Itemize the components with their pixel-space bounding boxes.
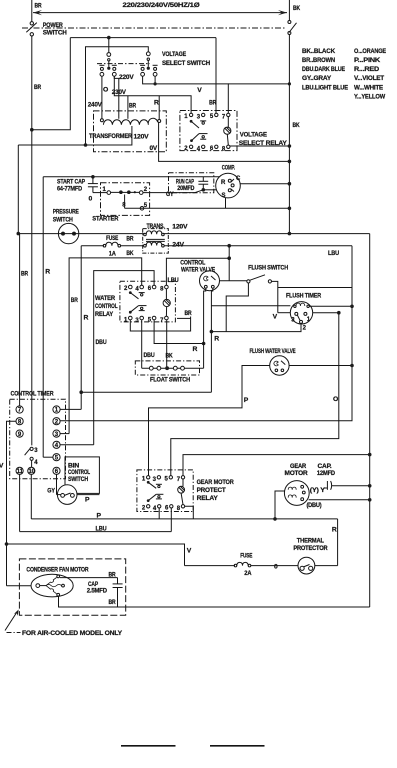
wire top supply span with arrows [33,12,287,14]
svg-text:V: V [0,463,4,470]
node junction P gear motor [273,517,277,521]
wire timer 5 from R vertical [43,456,53,458]
svg-text:RUN CAP: RUN CAP [176,180,194,186]
wire gear motor right to rail [309,499,370,501]
wire relay 7 BK to float switch [166,320,168,368]
wire BK fuse drop / R vertical [80,246,82,410]
wire gear motor left to P line [275,491,284,519]
svg-text:O: O [103,87,108,94]
svg-text:R...RED: R...RED [354,66,379,73]
svg-text:CAP: CAP [88,582,98,588]
timer pin 10 [28,467,35,474]
svg-text:12MFD: 12MFD [317,471,336,477]
svg-text:LBU: LBU [328,250,339,257]
wire LBU right rail [60,246,352,421]
node junction BK at 0V rail [288,160,292,164]
wire run cap bottom to compressor [203,189,216,191]
wire 0V secondary to BK rail [159,123,290,162]
svg-text:3: 3 [34,448,38,454]
voltage select switch pole B contacts [140,64,145,66]
svg-text:6: 6 [165,505,169,511]
svg-text:FLUSH TIMER: FLUSH TIMER [286,292,321,299]
svg-text:2: 2 [142,505,146,511]
wire R link line to relay pin1 [114,76,191,113]
node junction V drop [5,542,9,546]
svg-text:5: 5 [210,114,214,120]
voltage select switch pole A contacts [99,64,104,66]
transformer T2 core [146,238,165,240]
wire P corner down R to thermal [337,519,339,566]
transformer T1 primary winding [100,119,103,122]
relay U2 pin 5 [152,316,156,320]
footer line 1 [121,745,176,747]
wire BR to timer 7 [19,234,21,406]
svg-text:R: R [214,336,219,343]
svg-text:BK: BK [293,5,300,12]
svg-text:220V: 220V [119,74,134,81]
wire LBU branch to water relay 8 [166,258,229,285]
svg-text:1: 1 [142,476,146,482]
wire flush timer coil to LBU rail [309,305,352,307]
svg-text:FLOAT SWITCH: FLOAT SWITCH [150,377,190,384]
wire flush timer left [278,312,291,314]
relay U2 pin 2 [129,285,133,289]
svg-text:R: R [45,269,50,276]
svg-text:2.5MFD: 2.5MFD [87,589,108,595]
svg-text:GEAR MOTOR: GEAR MOTOR [197,479,234,486]
svg-text:P: P [85,497,90,504]
svg-text:BR: BR [109,600,117,606]
wire left branch to water relay 4 [69,258,142,434]
timer pin 4 [53,441,60,448]
svg-text:WATER: WATER [95,295,115,302]
wire rail right end down to relay pin5 [215,38,217,114]
node junction V link [154,82,157,85]
node junction valve left [202,342,206,346]
svg-text:FUSE: FUSE [240,553,252,559]
wire BR left drop from tap wire [17,145,19,234]
relay U3 pin 5 [169,476,172,479]
node junction right rail gear7 [368,453,372,457]
wire BR vertical rail left [31,36,33,445]
svg-text:CONTROL: CONTROL [180,259,205,266]
svg-text:S: S [222,193,226,199]
wire relay pin8 to BK rail [230,145,289,147]
wire thermal right to R corner [315,565,338,567]
wire flush valve left P to gear relay 1 [149,366,270,476]
svg-text:3: 3 [153,477,157,483]
node junction BR at y130 [30,128,34,132]
svg-text:240V: 240V [88,102,103,109]
relay U2 pin 7 [165,316,169,320]
air cooled note arrow [5,612,17,631]
svg-text:4: 4 [135,287,139,293]
wire relay 8 elbow to P [185,506,194,519]
wire transformer right terminal up [158,96,160,119]
relay U1 contact blades [190,120,193,123]
svg-text:W...WHITE: W...WHITE [354,85,384,92]
wire BR drop from top [31,0,33,22]
svg-text:Y...YELLOW: Y...YELLOW [354,94,386,101]
node junction BK at V-link [288,82,291,85]
wire bin switch right [77,494,99,496]
timer pin 7 [16,406,23,413]
svg-text:2: 2 [303,326,307,332]
svg-text:DBU: DBU [144,353,155,359]
relay U3 pin 7 [181,476,184,479]
power switch right pole [288,21,291,24]
svg-text:MOTOR: MOTOR [285,471,309,477]
svg-text:120V: 120V [172,225,187,231]
svg-text:TRANSFORMER: TRANSFORMER [89,133,132,140]
wire P line [31,518,337,520]
voltage select switch mechanical link [97,63,150,65]
node junction BK at relay8 [288,144,292,148]
wire R vertical [42,177,44,457]
svg-text:0V: 0V [150,145,158,152]
timer pin 9 [16,430,23,437]
svg-text:(Y) Y: (Y) Y [310,488,325,494]
svg-text:BR: BR [35,3,42,10]
capacitor C2 run cap [202,177,204,182]
wire relay 6 down to LBU [170,508,172,532]
svg-text:BR..BROWN: BR..BROWN [302,57,335,64]
svg-text:LBU.LIGHT BLUE: LBU.LIGHT BLUE [302,85,349,92]
relay U1 coil [227,117,229,128]
relay U2 pin 4 [140,285,144,289]
node junction BK starter [288,207,292,211]
node junction start cap [91,175,95,179]
node junction tap wire [84,143,88,147]
relay U2 pin 3 [140,316,144,320]
svg-text:BR: BR [129,103,136,110]
svg-text:WATER VALVE: WATER VALVE [181,267,215,274]
svg-text:2: 2 [124,286,128,292]
svg-text:(DBU): (DBU) [307,503,322,509]
node junction right rail motor [368,498,372,502]
relay U2 pin 1 [129,316,133,320]
svg-text:BR: BR [126,236,134,242]
svg-text:RELAY: RELAY [197,495,219,502]
timer pin 8 [16,418,23,425]
wire 120V line left segment [18,233,145,235]
svg-text:P: P [244,397,249,404]
svg-text:8: 8 [160,287,164,293]
svg-text:BR: BR [185,311,193,317]
svg-text:VOLTAGE: VOLTAGE [240,132,268,139]
svg-text:10: 10 [29,469,36,475]
svg-text:3: 3 [135,318,139,324]
node junction LBU rail valve [350,364,354,368]
wire flush timer 2 to R [211,323,301,331]
wire valve right terminal down R [211,288,212,392]
legend color codes [302,48,387,101]
svg-text:V...VIOLET: V...VIOLET [354,75,385,82]
relay U1 pin 8 [227,145,230,148]
gear motor protect relay U3 box [137,470,193,512]
relay U3 pin 8 [181,505,184,508]
node junction LBU branch [227,256,231,260]
relay U1 pin 4 [202,145,205,148]
svg-text:BR: BR [109,572,117,578]
svg-text:BK..BLACK: BK..BLACK [302,48,335,55]
voltage select switch pole B [146,52,150,56]
svg-text:R: R [332,526,337,533]
wire flush switch to flush timer [272,281,278,312]
timer pin 5 [53,454,60,461]
svg-text:GY: GY [47,488,55,494]
svg-text:CONTROL: CONTROL [95,303,118,310]
node junction right rail cap [368,484,372,488]
svg-text:PROTECTOR: PROTECTOR [293,546,328,552]
wire relay 4 down to P [158,508,160,519]
node junction 24V drop [227,244,231,248]
wire transformer center tap to left [18,126,132,145]
svg-text:BR: BR [71,297,78,304]
footer line 2 [210,745,265,747]
svg-text:DBU: DBU [96,339,107,346]
svg-text:SWITCH: SWITCH [53,217,73,224]
node junction O drop [337,311,341,315]
wire timer 8 to V drop [7,421,17,586]
wire 240V tap O [101,76,103,119]
svg-text:64-77MFD: 64-77MFD [57,186,82,193]
control timer box [10,399,66,479]
wire relay 7 up and right to rail [183,455,370,476]
svg-text:COMP.: COMP. [222,164,235,171]
svg-text:TRANS.: TRANS. [147,224,165,230]
svg-text:20MFD: 20MFD [177,186,195,192]
timer pin 11 [16,467,23,474]
wire 230V tap [127,96,129,119]
svg-text:P...PINK: P...PINK [354,57,380,64]
wire control timer 1 corner [60,408,81,410]
wire power switch mechanical link dash-dot [22,27,286,29]
wire relay 3 DBU to float switch [141,320,143,368]
wire 120V right rail down [369,234,371,607]
svg-text:FLUSH WATER VALVE: FLUSH WATER VALVE [250,348,296,355]
node junction LBU rail coil [350,305,354,309]
svg-text:THERMAL: THERMAL [297,538,325,544]
bin control switch S5 [57,485,77,505]
wire timer 4 to DBU [60,444,94,446]
wire starter to BK rail [125,207,290,209]
svg-text:FOR AIR-COOLED MODEL ONLY: FOR AIR-COOLED MODEL ONLY [22,630,123,637]
wire V link line to relay pin7 [143,76,229,113]
node junction BK end [288,232,292,236]
node junction BK compressor [288,182,292,186]
timer pin 2 [53,418,60,425]
svg-text:CONDENSER FAN MOTOR: CONDENSER FAN MOTOR [26,567,89,573]
node junction flush timer 2 wire [210,330,214,334]
timer pin 3 [53,430,60,437]
svg-text:BK: BK [126,251,134,257]
relay U2 coil [165,289,167,300]
wire BK vertical rail [288,35,290,234]
svg-text:SELECT SWITCH: SELECT SWITCH [162,60,210,67]
wire timer 10 down to P line [30,474,32,519]
node junction R branch [79,390,83,394]
svg-text:FLUSH SWITCH: FLUSH SWITCH [248,264,288,271]
water control relay U2 box [120,281,175,322]
wire flush switch left contact descent [226,283,248,332]
timer internal switch [30,447,33,450]
svg-text:R: R [193,346,198,353]
relay U1 pin 3 [202,113,205,116]
svg-text:7: 7 [177,477,181,483]
relay U3 coil [182,479,184,486]
svg-text:BR: BR [209,100,216,107]
wire from BR junction to top rail [32,38,71,130]
wire R rail horizontal [43,176,219,178]
wire 24V drop to valve level [228,246,230,281]
svg-text:0: 0 [89,196,93,203]
relay U1 pin 6 [215,145,218,148]
starter contact dots [119,190,123,194]
svg-text:BIN: BIN [68,463,79,469]
wire relay 5 to valve-left node [154,320,204,344]
starter terminal 1 [107,191,111,195]
starter terminal 2 [139,191,143,195]
condenser fan motor M4 [31,574,73,597]
wire 24V line to LBU corner [164,245,352,247]
svg-text:11: 11 [17,469,24,475]
wire O drop to gear relay 5 [171,313,339,476]
wire motor top BR to cap [60,577,118,579]
transformer T1 box [94,111,167,152]
svg-text:7: 7 [160,318,164,324]
svg-text:LBU: LBU [96,525,107,532]
svg-text:FUSE: FUSE [106,236,118,242]
svg-text:BR: BR [21,271,28,278]
svg-text:1: 1 [184,114,188,120]
wire R to control timer 1 [81,391,211,393]
wire DBU branch to water relay 6 [94,271,154,445]
relay U1 pin 5 [215,113,218,116]
svg-text:1: 1 [124,317,128,323]
starter box [101,183,150,216]
run capacitor C2 box [169,173,214,193]
wire compressor S down to starter line [225,198,227,209]
svg-text:8: 8 [177,506,181,512]
svg-text:220/230/240V/50HZ/1Ø: 220/230/240V/50HZ/1Ø [123,2,200,9]
svg-text:BK: BK [166,354,174,360]
svg-text:3: 3 [291,318,295,324]
svg-text:VOLTAGE: VOLTAGE [162,51,187,58]
svg-text:5: 5 [148,317,152,323]
svg-text:O: O [333,396,338,403]
svg-text:R: R [84,315,89,322]
svg-text:P: P [97,512,102,519]
wire motor bottom BR to right rail [59,596,370,608]
wire relay 1 to BR corner [130,317,190,332]
capacitor C3 12MFD [324,487,328,489]
relay U3 pin 2 [147,505,150,508]
svg-text:120V: 120V [134,134,150,141]
svg-text:CAP.: CAP. [318,464,333,470]
svg-text:0: 0 [274,564,278,571]
svg-text:STARTER: STARTER [92,216,118,223]
svg-text:4: 4 [197,146,201,152]
svg-text:SWITCH: SWITCH [68,477,88,483]
svg-text:8: 8 [222,146,226,152]
svg-text:CONTROL TIMER: CONTROL TIMER [11,391,54,398]
svg-text:4: 4 [34,460,38,466]
relay U3 pin 6 [170,505,173,508]
relay U3 pin 1 [147,476,150,479]
flush timer box [278,287,352,289]
relay U1 pin 2 [189,145,192,148]
relay U2 contact blades [129,291,132,294]
voltage select switch pole A [108,38,110,53]
svg-text:PROTECT: PROTECT [197,487,227,494]
svg-text:3: 3 [197,115,201,121]
svg-text:5: 5 [165,476,169,482]
transformer T2 secondary [144,244,147,247]
power switch left pole [30,22,33,25]
bin control switch S5 box [65,457,99,494]
svg-text:V: V [273,314,278,321]
wire timer 6 GY to bin switch [56,474,58,494]
svg-text:V: V [187,547,192,554]
relay U1 pin 7 [227,113,230,116]
relay U1 pin 1 [189,113,192,116]
svg-text:7: 7 [222,115,226,121]
condenser fan motor box [19,559,125,615]
flush timer motor M2 [290,302,312,324]
wire BK drop from top right [288,0,290,20]
wire second rail [86,47,149,145]
relay U2 pin 6 [152,285,156,289]
node junction BR pressure line [17,232,21,236]
svg-text:1A: 1A [109,251,117,257]
transformer T2 primary [144,233,147,236]
wire timer 3 up LBU [60,433,69,435]
wire flush timer 1 to O drop [313,312,339,314]
wire valve left terminal down to float row [204,288,206,368]
wire compressor C to BK rail [240,183,289,185]
timer pin 1 [53,406,60,413]
wire flush valve right to LBU rail [289,365,352,367]
svg-text:BK: BK [293,122,300,129]
float switch S4 box [135,361,199,375]
wire LBU line [20,531,172,533]
wire starter 2 to run cap [143,190,203,193]
relay U2 pin 8 [165,285,169,289]
wire V line into motor [7,585,32,587]
wire valve right to 24V drop [220,280,247,282]
svg-text:O...ORANGE: O...ORANGE [354,48,387,55]
svg-text:6: 6 [148,286,152,292]
svg-text:BR: BR [34,84,41,91]
wire 220V tap [114,76,119,119]
svg-text:START CAP: START CAP [57,179,86,186]
node junction top rail [107,36,111,40]
svg-text:C: C [236,176,241,182]
relay U3 pin 3 [157,476,160,479]
wire timer 11 down to LBU line [19,474,21,531]
wire top rail to voltage select switch [70,37,216,39]
wire V line [7,544,185,566]
svg-text:V: V [197,87,202,94]
svg-text:SWITCH: SWITCH [43,30,67,37]
svg-text:PRESSURE: PRESSURE [53,209,79,216]
timer pin 6 [53,467,60,474]
svg-text:2A: 2A [244,571,252,577]
svg-text:RELAY: RELAY [95,311,114,318]
relay U3 contact blades [147,481,150,484]
svg-text:DBU.DARK BLUE: DBU.DARK BLUE [302,66,346,73]
